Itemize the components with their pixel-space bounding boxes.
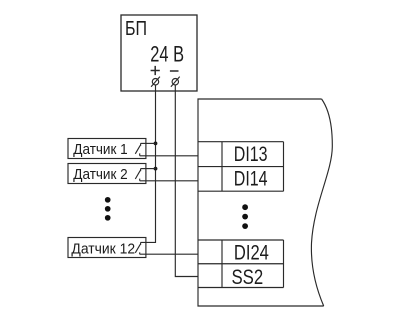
ellipsis dots left column	[105, 197, 111, 221]
terminal circle plus	[151, 77, 160, 87]
junction dot node sensor2/plus	[154, 167, 158, 171]
terminal row DI13	[198, 142, 284, 192]
wire sensor1 top terminal to plus wire	[141, 142, 156, 144]
svg-text:DI13: DI13	[234, 143, 268, 166]
terminal row SS2	[198, 240, 284, 288]
svg-text:БП: БП	[125, 18, 147, 40]
switch contact S1	[135, 143, 140, 155]
wire sensor1 bottom terminal to DI13	[140, 155, 198, 157]
plus sign	[151, 66, 160, 75]
junction dot node sensor1/plus	[154, 142, 158, 146]
terminal circle minus	[171, 77, 180, 87]
svg-text:DI14: DI14	[234, 168, 268, 191]
svg-text:Датчик 2: Датчик 2	[73, 166, 127, 183]
switch contact S2	[135, 169, 140, 181]
terminal row DI24	[198, 240, 284, 288]
svg-text:SS2: SS2	[232, 266, 264, 289]
sensor box Датчик 1	[68, 139, 146, 159]
wire from minus terminal down to SS2	[175, 85, 198, 277]
device box with torn right edge	[198, 99, 332, 306]
minus sign	[170, 70, 179, 72]
wire sensor12 bottom terminal to DI24	[140, 253, 198, 255]
ellipsis dots right column	[242, 204, 248, 229]
terminal row DI14	[198, 142, 284, 192]
sensor box Датчик 2	[68, 164, 146, 184]
svg-text:24 В: 24 В	[150, 42, 184, 67]
wire sensor2 top terminal to plus wire	[141, 168, 156, 170]
svg-text:DI24: DI24	[234, 242, 269, 265]
power supply BP box	[121, 15, 197, 91]
wire sensor2 bottom terminal to DI14	[140, 180, 198, 182]
svg-text:Датчик 1: Датчик 1	[73, 141, 127, 158]
sensor box Датчик 12	[68, 238, 146, 258]
switch contact S12	[135, 242, 140, 254]
wire from plus terminal down to sensor 12	[141, 85, 156, 243]
svg-text:Датчик 12: Датчик 12	[71, 241, 135, 258]
